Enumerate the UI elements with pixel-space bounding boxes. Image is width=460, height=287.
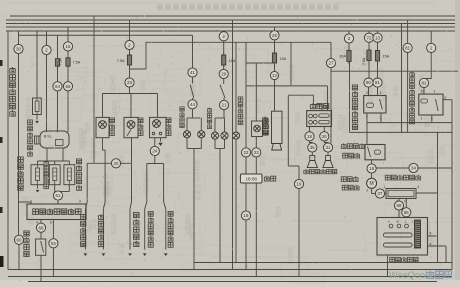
radio speaker L — [311, 152, 313, 155]
connector circle 23b — [252, 148, 261, 157]
svg-text:19: 19 — [244, 213, 249, 218]
connector circle 37 — [375, 189, 384, 198]
lighter column — [255, 63, 257, 121]
svg-text:41: 41 — [190, 70, 195, 75]
blower junction column — [437, 132, 439, 262]
wire fuse to junction — [129, 65, 131, 94]
dome lamp feed x129.5 — [129, 20, 131, 45]
wire 27 corner — [330, 42, 332, 58]
clock ground wires — [245, 183, 247, 211]
AC relay feed 13 — [377, 31, 379, 33]
long wire x232.5 — [232, 20, 234, 270]
svg-text:44: 44 — [190, 102, 195, 107]
connector circle 81a — [373, 78, 382, 87]
AC cutoff relay box — [364, 96, 386, 114]
woofer speaker box — [272, 111, 283, 143]
wire column x68 — [67, 27, 69, 58]
svg-text:66: 66 — [66, 84, 71, 89]
connector circle 64 — [53, 82, 62, 91]
bus line B6 — [19, 34, 193, 36]
connector circle 41 — [188, 68, 197, 77]
high mount stop lamp — [232, 132, 239, 139]
svg-text:86: 86 — [404, 210, 409, 215]
connector circle 27 — [326, 58, 335, 67]
svg-text:4: 4 — [79, 200, 81, 204]
bus line B1 — [10, 15, 455, 17]
label front dome lamp — [166, 118, 171, 123]
marker lamp L — [211, 132, 218, 139]
wire column x18.5 — [18, 31, 20, 235]
svg-text:7.5A: 7.5A — [59, 58, 63, 66]
relay1 pin3 wire — [380, 113, 382, 123]
svg-text:20: 20 — [221, 72, 226, 77]
side turn lamp bracket — [192, 109, 194, 118]
AC feed column x349 — [348, 31, 350, 34]
relay bus y132.4 — [350, 131, 453, 133]
condenser fan relay box — [419, 94, 443, 115]
front door switch bracket — [147, 163, 164, 165]
label AC cutoff relay — [352, 85, 357, 90]
wire M to 37 — [371, 188, 373, 193]
label tailgate lamp switch — [134, 212, 140, 217]
label outer vent valve — [44, 161, 49, 166]
dome lamp feed x94 — [93, 16, 95, 163]
connector circle 15 — [63, 42, 72, 51]
label right front door switch — [168, 211, 173, 216]
svg-text:81: 81 — [375, 80, 380, 85]
valve join wire — [54, 185, 56, 192]
svg-text:26: 26 — [272, 33, 277, 38]
connector circle 18b — [367, 164, 376, 173]
clock feed column 22 — [245, 42, 247, 148]
svg-text:1: 1 — [384, 185, 386, 189]
relay2 pin4 wire — [431, 115, 433, 123]
svg-text:19: 19 — [297, 182, 302, 187]
connector circle 2a — [42, 45, 51, 54]
wire column x57.5 — [57, 36, 59, 59]
condenser fan wire xb — [407, 20, 409, 43]
fuel cutoff valve — [37, 161, 39, 165]
fuse 7.5A c — [129, 50, 131, 55]
svg-text:54: 54 — [51, 241, 56, 246]
connector circle 20b — [219, 69, 228, 78]
connector circle 12 — [274, 63, 276, 71]
connector circle 21 — [219, 100, 228, 109]
AC relay feed 72 — [368, 31, 370, 33]
ground under front dome lamp — [160, 138, 162, 142]
top scan streak texture — [157, 5, 163, 11]
heater relay box — [365, 145, 385, 160]
marker lamp grounds — [214, 139, 216, 148]
wire to circle 20b — [223, 65, 225, 69]
svg-text:64: 64 — [55, 84, 60, 89]
choke heater wire x37 — [36, 31, 38, 98]
label vanity lamp — [138, 118, 143, 123]
svg-text:81: 81 — [405, 45, 410, 50]
right margin wire — [451, 100, 453, 270]
connector circle 23a — [125, 78, 134, 87]
svg-text:6: 6 — [50, 221, 52, 225]
bottom bus L2 — [8, 269, 452, 271]
label condenser fan relay — [410, 72, 415, 77]
svg-text:15A: 15A — [383, 55, 390, 59]
blower switch box — [377, 218, 428, 256]
svg-text:2: 2 — [30, 200, 32, 204]
svg-text:4: 4 — [418, 185, 420, 189]
svg-text:4: 4 — [380, 91, 382, 95]
svg-text:15: 15 — [66, 44, 71, 49]
svg-text:12: 12 — [272, 73, 277, 78]
bottom bus L3 — [8, 276, 452, 278]
label choke heater coil — [10, 67, 15, 73]
label rear dome lamp — [110, 118, 115, 123]
connector circle 61 — [53, 191, 62, 200]
svg-text:37: 37 — [378, 191, 383, 196]
label side turn lamps — [180, 107, 184, 111]
side turn lamp L — [183, 131, 190, 138]
blower switch ground — [387, 255, 389, 277]
right front door lamp switch — [163, 164, 165, 203]
label blower resistor — [385, 175, 390, 180]
relay bus y122.6 — [367, 122, 452, 124]
svg-text:20: 20 — [114, 161, 119, 166]
emission control computer — [27, 204, 86, 220]
radio speaker wires — [309, 127, 311, 132]
choke heater coil R — [33, 98, 42, 115]
connector circle 35 — [308, 143, 317, 152]
radio feed wire y85 — [246, 85, 328, 87]
computer output wire to vacuum switch — [40, 220, 42, 224]
svg-text:30: 30 — [421, 90, 425, 94]
tailgate lamp switch — [131, 163, 133, 202]
fuse 15A c — [377, 42, 379, 50]
relay1 pin1 wire — [366, 113, 368, 145]
connector circle 20a — [111, 159, 120, 168]
side turn lamp grounds — [186, 138, 188, 149]
label heater relay line2 — [343, 153, 348, 158]
connector circle 44 — [188, 100, 197, 109]
label radio speakers — [304, 169, 308, 174]
condenser fan wire xa — [401, 24, 403, 133]
svg-text:18: 18 — [369, 166, 374, 171]
blower switch resistor hatched — [415, 220, 421, 248]
label woofer — [264, 118, 269, 123]
svg-text:27: 27 — [329, 61, 334, 66]
label left front door switch — [148, 211, 153, 216]
bus line B3 — [6, 23, 455, 25]
svg-text:7.5A: 7.5A — [117, 59, 125, 63]
label blower motor line2 — [342, 185, 347, 190]
fuse 30A — [348, 43, 350, 50]
connector circle 24 — [154, 138, 156, 147]
alternator assembly — [40, 131, 69, 148]
connector circle 80 — [364, 78, 373, 87]
marker lamp R — [221, 132, 228, 139]
left front door lamp switch — [146, 164, 148, 203]
fuel cutoff vent arrow — [37, 185, 39, 189]
radio ground wire — [288, 95, 322, 110]
label alternator — [28, 120, 33, 125]
cigarette lighter — [252, 121, 263, 137]
label heater relay line1 — [341, 143, 346, 148]
left margin wire x8 — [7, 31, 9, 270]
resistor to junction wire — [416, 192, 438, 194]
connector circle 22 — [241, 148, 250, 157]
side turn lamp column — [192, 36, 194, 68]
svg-text:23: 23 — [127, 80, 132, 85]
svg-text:23: 23 — [254, 150, 259, 155]
connector circle 34 — [409, 163, 418, 172]
fuse 7.5A b — [67, 55, 69, 68]
svg-text:7.5A: 7.5A — [362, 57, 366, 65]
label rear door lamp switch — [98, 214, 103, 219]
svg-text:72: 72 — [367, 35, 372, 40]
svg-text:24: 24 — [152, 149, 157, 154]
alternator output wires — [46, 148, 48, 161]
svg-text:B S L: B S L — [44, 135, 52, 139]
fuse 15A b — [274, 40, 276, 53]
bottom bus L1 — [194, 262, 452, 264]
label air preheat valve — [76, 159, 81, 164]
label blower motor line1 — [341, 177, 346, 182]
marker switch — [223, 79, 225, 84]
dome lamp header wire — [103, 93, 158, 95]
svg-text:5: 5 — [430, 232, 432, 236]
rear dome lamp box — [96, 117, 109, 137]
vacuum switch circle — [14, 235, 23, 244]
bus line B2 — [6, 19, 455, 21]
connector circle 81c — [419, 78, 428, 87]
connector circle 2b — [125, 40, 134, 49]
label radio — [310, 103, 315, 109]
svg-text:26: 26 — [322, 134, 327, 139]
connector circle 30 — [14, 44, 23, 53]
connector circle 68 — [36, 223, 45, 232]
label blower switch — [390, 257, 395, 262]
svg-text:1: 1 — [434, 90, 436, 94]
svg-text:88: 88 — [397, 203, 402, 208]
connector circle 26a — [274, 27, 276, 31]
condenser fan feed 2 — [430, 31, 432, 43]
side turn switch — [192, 77, 194, 83]
bottom bus L4 — [28, 281, 437, 283]
svg-text:WeeQoo: WeeQoo — [389, 270, 425, 280]
svg-text:34: 34 — [411, 166, 416, 171]
feeder wire B7 — [146, 42, 331, 69]
label rear dome lamp switch — [81, 214, 86, 219]
svg-text:80: 80 — [366, 80, 371, 85]
blower feed wire y168 — [376, 167, 452, 169]
bleed-through text ghosts — [105, 183, 109, 187]
connector circle 18a — [305, 132, 314, 141]
bus line B5 — [6, 30, 455, 32]
svg-text:7.5A: 7.5A — [73, 61, 81, 65]
label fuel cutoff valve — [18, 157, 24, 162]
svg-text:2: 2 — [367, 189, 369, 193]
side turn lamp R — [198, 131, 205, 138]
connector circle 26b — [320, 132, 329, 141]
svg-text:18: 18 — [307, 134, 312, 139]
air preheat valve — [68, 161, 70, 165]
svg-text:21: 21 — [222, 103, 227, 108]
fuse 7.5A d — [368, 42, 370, 50]
computer output wire 2 — [52, 220, 54, 239]
front dome lamp box — [150, 117, 167, 137]
connector circle 2c — [219, 32, 228, 41]
marker lamp column — [223, 31, 225, 33]
choke ground arrow — [36, 115, 38, 120]
blower motor M — [371, 173, 373, 178]
outer vent valve — [54, 161, 56, 165]
wire heater relay to 18 — [371, 160, 373, 164]
svg-text:60: 60 — [17, 237, 22, 242]
computer pin2 feed wire — [19, 202, 32, 204]
accessory wire y63 — [246, 62, 275, 64]
branch wire y71.2 — [331, 70, 458, 72]
bus line B4 — [6, 26, 455, 28]
radio speaker R — [327, 152, 329, 155]
svg-text:35: 35 — [310, 145, 315, 150]
svg-text:61: 61 — [56, 193, 61, 198]
label clock — [264, 176, 269, 181]
rear dome lamp switch — [86, 163, 88, 202]
relay2 output wire — [443, 99, 452, 101]
connector circle 2d — [344, 34, 353, 43]
marker lamp bracket — [223, 110, 225, 118]
label high mount stop lamp — [238, 97, 243, 101]
left edge scan blobs — [0, 60, 3, 66]
door lamp wire — [87, 162, 131, 164]
radio unit — [307, 111, 332, 127]
label marker lamps — [207, 108, 211, 113]
connector circle 19a — [241, 211, 250, 220]
svg-text:18:08: 18:08 — [245, 177, 257, 182]
fuse 15A a — [223, 41, 225, 55]
high stop lamp column — [235, 42, 237, 132]
svg-text:22: 22 — [244, 150, 249, 155]
connector circle 81b — [403, 43, 412, 52]
connector circle 31 — [323, 143, 332, 152]
label cigarette lighter — [263, 117, 268, 122]
svg-text:2: 2 — [366, 91, 368, 95]
blower resistor box — [386, 189, 416, 199]
connector circle 86 — [402, 208, 411, 217]
svg-text:a: a — [430, 242, 432, 246]
connector circle 2e — [427, 43, 436, 52]
connector circle 54 — [49, 239, 58, 248]
clock — [240, 174, 262, 183]
svg-text:15A: 15A — [280, 57, 287, 61]
svg-text:13: 13 — [375, 35, 380, 40]
connector circle 66 — [63, 82, 72, 91]
wire lighter to 23b — [255, 137, 257, 148]
connector circle 88 — [394, 201, 403, 210]
vanity lamp box — [124, 117, 138, 137]
svg-text:68: 68 — [39, 225, 44, 230]
rear door lamp switch — [103, 138, 106, 150]
connector circle 19b — [294, 179, 303, 188]
vacuum delay switch box — [36, 239, 46, 255]
label vacuum switch — [24, 231, 29, 236]
svg-text:30: 30 — [16, 47, 21, 52]
svg-text:31: 31 — [326, 145, 331, 150]
wire column x46.5 — [46, 31, 48, 132]
fuse 7.5A a — [57, 56, 59, 68]
